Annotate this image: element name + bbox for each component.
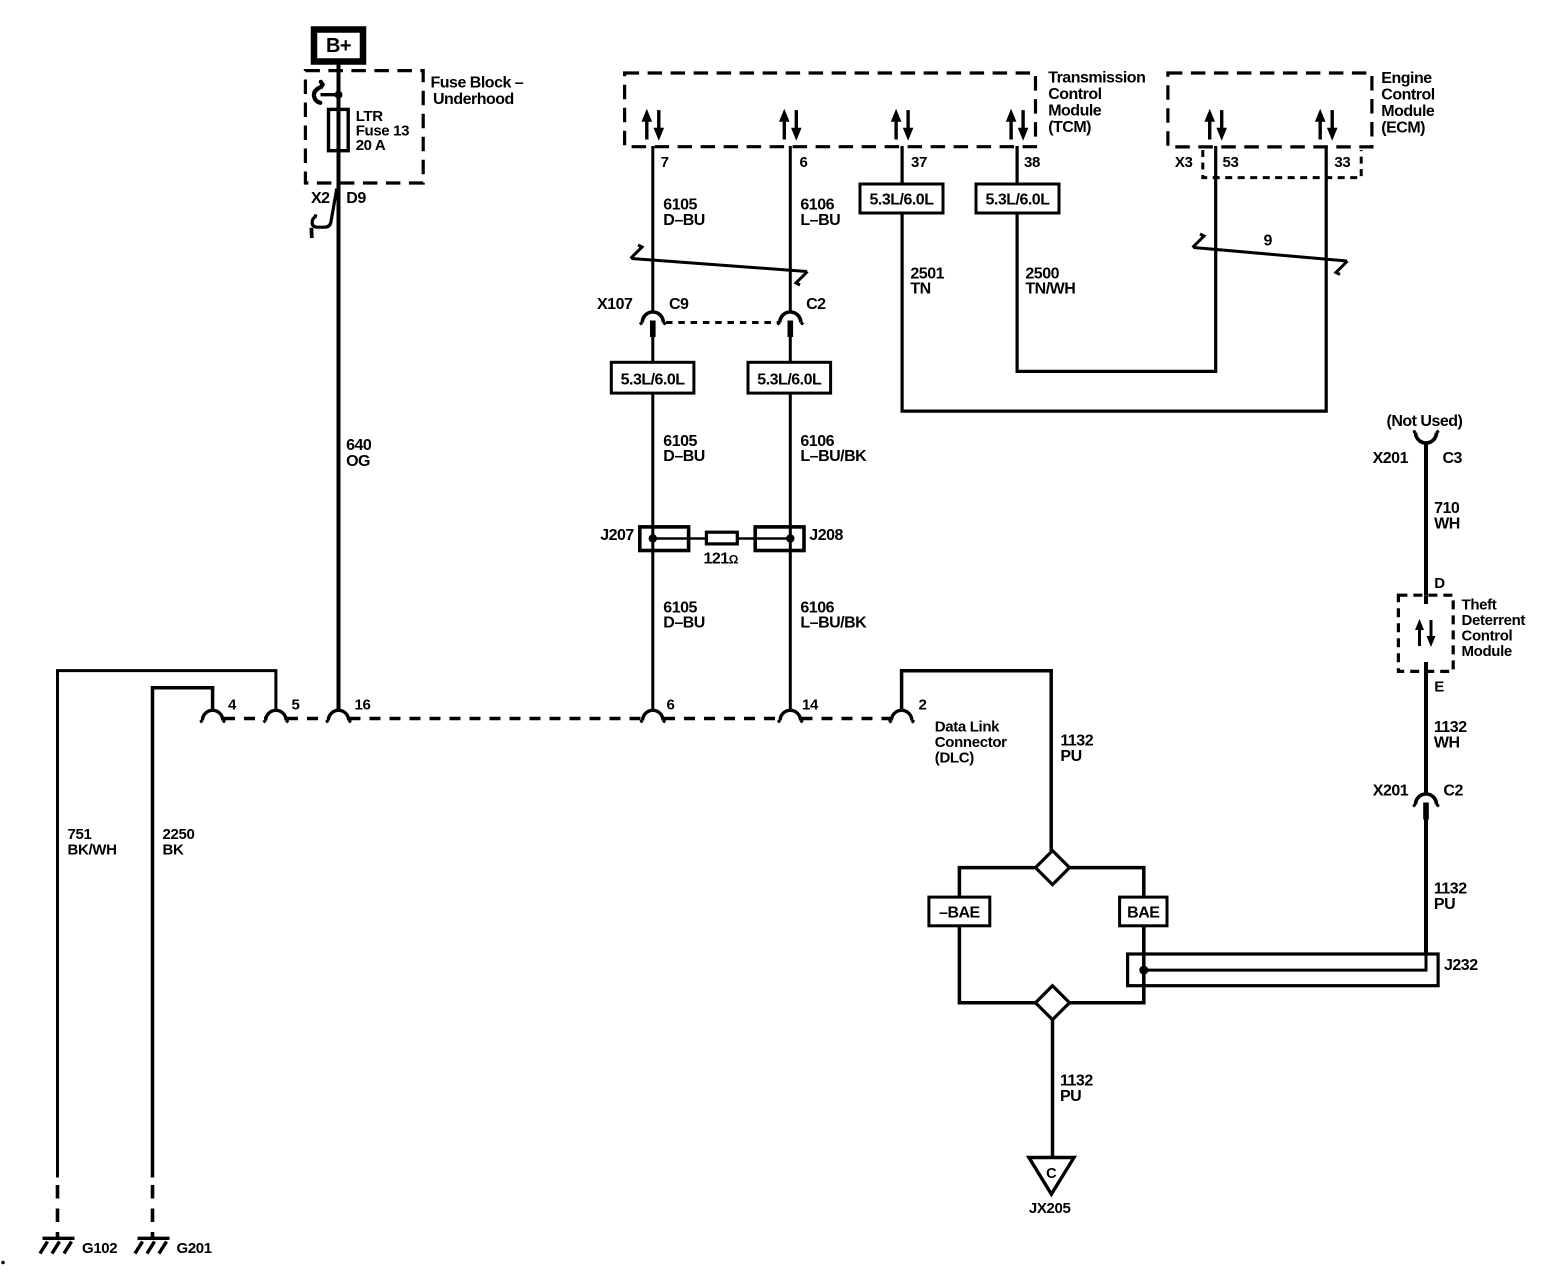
engine control module ECM dashed box — [1168, 73, 1372, 147]
svg-text:1132: 1132 — [1060, 733, 1093, 750]
svg-text:(DLC): (DLC) — [935, 750, 974, 767]
svg-text:L–BU: L–BU — [800, 212, 840, 229]
svg-text:D: D — [1434, 575, 1445, 592]
DLC pin 4 bump — [202, 710, 222, 720]
svg-text:Fuse Block –: Fuse Block – — [431, 75, 524, 92]
svg-text:33: 33 — [1334, 154, 1350, 171]
wire 1132 PU from DLC pin 2 to splice diamond — [902, 671, 1052, 851]
svg-text:D–BU: D–BU — [663, 448, 705, 465]
DLC pin 2 bump — [891, 710, 911, 720]
svg-text:J232: J232 — [1444, 957, 1478, 974]
svg-text:37: 37 — [911, 154, 927, 171]
data link connector DLC dashed pin line — [224, 717, 266, 720]
svg-text:38: 38 — [1024, 154, 1040, 171]
fuse LTR Fuse 13 20 A — [329, 108, 410, 154]
svg-text:5.3L/6.0L: 5.3L/6.0L — [870, 192, 935, 209]
svg-text:Data Link: Data Link — [935, 719, 1000, 736]
svg-text:D–BU: D–BU — [663, 615, 705, 632]
svg-text:1132: 1132 — [1434, 881, 1467, 898]
svg-text:B+: B+ — [326, 35, 351, 57]
BAE box — [1120, 897, 1167, 926]
svg-text:Deterrent: Deterrent — [1462, 612, 1526, 629]
svg-text:9: 9 — [1264, 233, 1273, 250]
wire label 6106 L-BU upper — [800, 197, 840, 230]
svg-text:D–BU: D–BU — [663, 212, 705, 229]
DLC pin 6 bump — [643, 710, 663, 720]
wire label 710 WH — [1434, 500, 1460, 533]
wire 6106 from TCM pin 6 down to DLC pin 14 — [789, 146, 792, 314]
svg-text:Theft: Theft — [1462, 597, 1497, 614]
-BAE box — [929, 897, 990, 926]
svg-text:–BAE: –BAE — [939, 905, 981, 922]
svg-text:OG: OG — [346, 453, 370, 470]
dotted link between C9 and C2 — [666, 321, 778, 324]
wire label 6105 D-BU upper — [663, 197, 705, 230]
svg-text:20 A: 20 A — [356, 137, 386, 154]
wire 2250 BK from DLC pin 4 to G201 — [153, 688, 213, 1178]
svg-text:Connector: Connector — [935, 734, 1007, 751]
wire right branch to BAE — [1070, 868, 1144, 898]
connector X201 C3 not used — [1373, 413, 1463, 467]
svg-text:4: 4 — [228, 697, 237, 714]
J232 junction dot — [1139, 966, 1148, 975]
svg-text:5.3L/6.0L: 5.3L/6.0L — [757, 372, 822, 389]
svg-text:X2: X2 — [311, 190, 330, 207]
svg-text:X107: X107 — [597, 296, 633, 313]
svg-text:(ECM): (ECM) — [1381, 120, 1425, 137]
wire BAE branch through J232 — [1142, 926, 1146, 1003]
wire label 1132 PU — [1060, 733, 1093, 766]
splice pack J207 — [600, 527, 688, 551]
TCM bidirectional arrows pin 7 — [642, 109, 665, 141]
svg-text:1132: 1132 — [1434, 719, 1467, 736]
svg-text:E: E — [1434, 679, 1444, 696]
wire label 640 OG — [346, 437, 372, 470]
connector X107 C9 — [597, 296, 689, 337]
svg-text:7: 7 — [661, 154, 669, 171]
ground G102 — [40, 1238, 117, 1257]
svg-text:53: 53 — [1223, 154, 1239, 171]
svg-text:BK: BK — [163, 842, 184, 859]
svg-text:G102: G102 — [82, 1240, 117, 1257]
transmission control module TCM dashed box — [625, 73, 1036, 147]
svg-text:640: 640 — [346, 437, 372, 454]
wire 2501 TN from TCM pin 37 to ECM pin 33 — [902, 146, 1326, 411]
wire left branch to -BAE — [959, 868, 1035, 898]
svg-text:Module: Module — [1462, 643, 1512, 660]
svg-text:L–BU/BK: L–BU/BK — [800, 448, 867, 465]
twisted pair crossing symbol — [631, 245, 808, 285]
ECM bidirectional arrows pin 33 — [1315, 109, 1338, 141]
svg-text:16: 16 — [355, 697, 371, 714]
svg-text:C: C — [1046, 1166, 1057, 1182]
wire 1132 PU from X201 C2 to J232 — [1424, 819, 1428, 953]
twisted pair crossing symbol 9 — [1193, 233, 1348, 275]
wire label 6105 D-BU lower — [663, 600, 705, 632]
TCM bidirectional arrows pin 6 — [779, 109, 802, 141]
battery feed B+ terminal — [314, 30, 363, 62]
wire label 751 BK/WH — [68, 826, 117, 859]
J232 internal wire to theft deterrent module — [1144, 952, 1426, 970]
svg-text:TN/WH: TN/WH — [1025, 281, 1075, 298]
splice pack J232 — [1128, 954, 1479, 986]
svg-text:C9: C9 — [669, 296, 689, 313]
svg-text:5.3L/6.0L: 5.3L/6.0L — [986, 192, 1051, 209]
wire label 1132 WH — [1434, 719, 1467, 752]
wire label 2501 TN — [910, 266, 944, 298]
svg-text:BK/WH: BK/WH — [68, 842, 117, 859]
wire 1132 WH from theft deterrent module pin E to X201 C2 — [1424, 671, 1428, 794]
wire 751 BK/WH from DLC pin 5 to G102 — [58, 671, 276, 1178]
wire 1132 PU from bottom diamond to JX205 — [1051, 1020, 1055, 1156]
svg-text:PU: PU — [1060, 1088, 1081, 1105]
wire label 6106 L-BU/BK mid — [800, 433, 867, 465]
svg-text:6105: 6105 — [663, 197, 697, 214]
connector X107 C2 — [777, 296, 826, 337]
svg-text:J207: J207 — [600, 527, 634, 544]
svg-text:BAE: BAE — [1127, 905, 1160, 922]
svg-text:14: 14 — [802, 697, 819, 714]
svg-text:C2: C2 — [1443, 783, 1463, 800]
svg-text:X201: X201 — [1373, 450, 1409, 467]
svg-text:J208: J208 — [809, 527, 843, 544]
svg-text:2250: 2250 — [163, 826, 195, 843]
TCM label — [1048, 69, 1145, 136]
fuse block label — [431, 75, 524, 109]
svg-text:G201: G201 — [177, 1240, 212, 1257]
DLC pin 14 bump — [780, 710, 800, 720]
svg-text:5.3L/6.0L: 5.3L/6.0L — [621, 372, 686, 389]
svg-text:Module: Module — [1381, 103, 1435, 120]
theft deterrent module bidirectional arrows — [1415, 619, 1436, 647]
TCM bidirectional arrows pin 37 — [891, 109, 914, 141]
5.3L/6.0L box on wire 2500 — [976, 184, 1059, 213]
ECM label — [1381, 70, 1435, 137]
svg-text:WH: WH — [1434, 516, 1460, 533]
svg-text:1132: 1132 — [1060, 1073, 1093, 1090]
wire 710 WH from X201 C3 to theft deterrent module pin D — [1424, 442, 1428, 595]
ground G201 — [135, 1238, 212, 1257]
svg-text:(TCM): (TCM) — [1048, 119, 1091, 136]
TCM bidirectional arrows pin 38 — [1006, 109, 1029, 141]
svg-text:(Not Used): (Not Used) — [1387, 413, 1463, 430]
fuse block underhood dashed box — [305, 71, 423, 183]
wire 2500 TN/WH from TCM pin 38 to ECM pin 53 — [1017, 146, 1216, 371]
svg-text:5: 5 — [292, 697, 300, 714]
wire 640 OG from B+ down to DLC pin 16 — [337, 64, 341, 710]
svg-text:PU: PU — [1434, 896, 1455, 913]
svg-text:6: 6 — [800, 154, 808, 171]
theft deterrent module label — [1462, 597, 1526, 661]
svg-text:L–BU/BK: L–BU/BK — [800, 615, 867, 632]
wire label 2250 BK — [163, 826, 195, 859]
wire label 2500 TN/WH — [1025, 266, 1075, 298]
svg-text:Module: Module — [1048, 103, 1102, 120]
ECM connector X3 dotted box — [1203, 150, 1361, 178]
svg-text:C2: C2 — [806, 296, 826, 313]
svg-text:Transmission: Transmission — [1048, 69, 1145, 86]
svg-text:6106: 6106 — [800, 197, 834, 214]
svg-text:C3: C3 — [1443, 450, 1463, 467]
svg-text:6: 6 — [667, 697, 675, 714]
splice pack J208 — [755, 527, 843, 551]
5.3L/6.0L box on wire 6106 — [748, 362, 831, 393]
connector X2 pin D9 — [311, 189, 366, 239]
wire label 6106 L-BU/BK lower — [800, 600, 867, 632]
svg-text:Control: Control — [1048, 86, 1101, 103]
5.3L/6.0L box on wire 2501 — [860, 184, 943, 213]
ECM bidirectional arrows pin 53 — [1204, 109, 1227, 141]
connector X201 C2 — [1373, 783, 1464, 820]
svg-text:PU: PU — [1060, 748, 1081, 765]
wire label 1132 PU bottom — [1060, 1073, 1093, 1106]
svg-text:Engine: Engine — [1381, 70, 1432, 87]
5.3L/6.0L box on wire 6105 — [611, 362, 694, 393]
svg-text:751: 751 — [68, 826, 92, 843]
svg-text:Control: Control — [1381, 86, 1434, 103]
svg-text:X201: X201 — [1373, 783, 1409, 800]
svg-text:710: 710 — [1434, 500, 1460, 517]
svg-text:D9: D9 — [346, 190, 366, 207]
theft deterrent control module dashed box — [1398, 595, 1453, 671]
theft module wire stubs — [1424, 595, 1428, 604]
svg-text:Control: Control — [1462, 628, 1513, 645]
svg-text:JX205: JX205 — [1029, 1200, 1071, 1217]
wire label 6105 D-BU mid — [663, 433, 705, 465]
ground reference triangle C JX205 — [1029, 1158, 1074, 1217]
svg-text:WH: WH — [1434, 735, 1460, 752]
svg-text:Underhood: Underhood — [433, 91, 514, 108]
splice diamond bottom — [1036, 986, 1070, 1020]
DLC pin 16 bump — [328, 710, 348, 720]
svg-text:X3: X3 — [1175, 154, 1193, 171]
scan artifact dot — [1, 1261, 5, 1265]
wire 6105 from TCM pin 7 down to DLC pin 6 — [651, 146, 654, 314]
svg-text:121Ω: 121Ω — [704, 551, 739, 568]
fuse block internal connection hook — [314, 82, 343, 103]
splice diamond top — [1036, 851, 1070, 885]
svg-text:TN: TN — [910, 281, 930, 298]
terminating resistor 121 ohm — [653, 532, 791, 567]
DLC pin 5 bump — [266, 710, 286, 720]
wire label 1132 PU — [1434, 881, 1467, 914]
svg-text:2: 2 — [919, 697, 927, 714]
DLC label — [935, 719, 1007, 767]
